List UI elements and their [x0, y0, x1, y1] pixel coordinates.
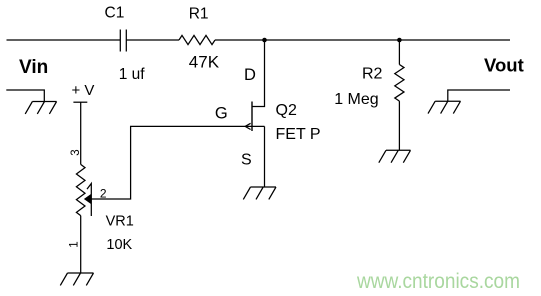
svg-text:Vin: Vin: [19, 57, 48, 78]
ground under Vin: [25, 102, 56, 114]
node A junction dot: [262, 38, 267, 43]
svg-text:G: G: [215, 104, 228, 122]
svg-text:D: D: [244, 66, 256, 84]
transistor Q2 channel bar: [251, 102, 253, 132]
wire +V to VR1 pin3: [80, 102, 82, 164]
wire R2 to ground: [398, 101, 400, 150]
ground under R2: [379, 150, 411, 162]
svg-text:Q2: Q2: [276, 102, 297, 119]
svg-text:VR1: VR1: [106, 213, 134, 229]
svg-text:3: 3: [70, 149, 82, 155]
svg-text:S: S: [241, 152, 252, 169]
svg-text:1 Meg: 1 Meg: [334, 91, 378, 108]
wire Q2 drain to node A: [252, 40, 265, 107]
capacitor C1: [120, 30, 126, 52]
wire node A to node B: [265, 39, 400, 41]
resistor R1: [179, 35, 215, 44]
ground under Vout: [428, 101, 461, 113]
wire R1 to node A: [215, 39, 265, 41]
wire C1 to R1: [127, 39, 180, 41]
svg-text:C1: C1: [105, 4, 125, 21]
wire Q2 source down: [264, 126, 266, 187]
wire VR1 wiper to gate: [91, 126, 264, 199]
resistor R2: [395, 65, 404, 102]
transistor Q2 gate arrowhead: [245, 123, 250, 129]
wire main top rail left of C1: [7, 39, 121, 41]
svg-text:2: 2: [100, 187, 107, 201]
wire Vout stub: [448, 90, 510, 101]
svg-text:10K: 10K: [106, 237, 132, 253]
svg-text:Vout: Vout: [484, 55, 524, 76]
wire Vin stub: [6, 90, 44, 102]
svg-text:R2: R2: [362, 65, 383, 82]
node B junction dot: [397, 38, 402, 43]
ground under Q2 source: [243, 187, 276, 199]
svg-text:FET P: FET P: [276, 126, 321, 143]
svg-text:1 uf: 1 uf: [119, 66, 146, 83]
wire node B to R2: [398, 40, 400, 65]
ground under VR1: [60, 273, 93, 285]
VR1 wiper arrow: [84, 184, 91, 217]
power +V terminal: [73, 101, 87, 103]
svg-text:1: 1: [69, 241, 81, 247]
svg-text:+ V: + V: [72, 82, 95, 99]
svg-text:47K: 47K: [189, 53, 220, 72]
potentiometer VR1 body: [76, 164, 85, 215]
wire node B to right end: [399, 39, 510, 41]
svg-text:R1: R1: [189, 5, 209, 22]
wire VR1 pin1 to ground: [80, 216, 82, 273]
svg-text:www.cntronics.com: www.cntronics.com: [356, 270, 520, 293]
